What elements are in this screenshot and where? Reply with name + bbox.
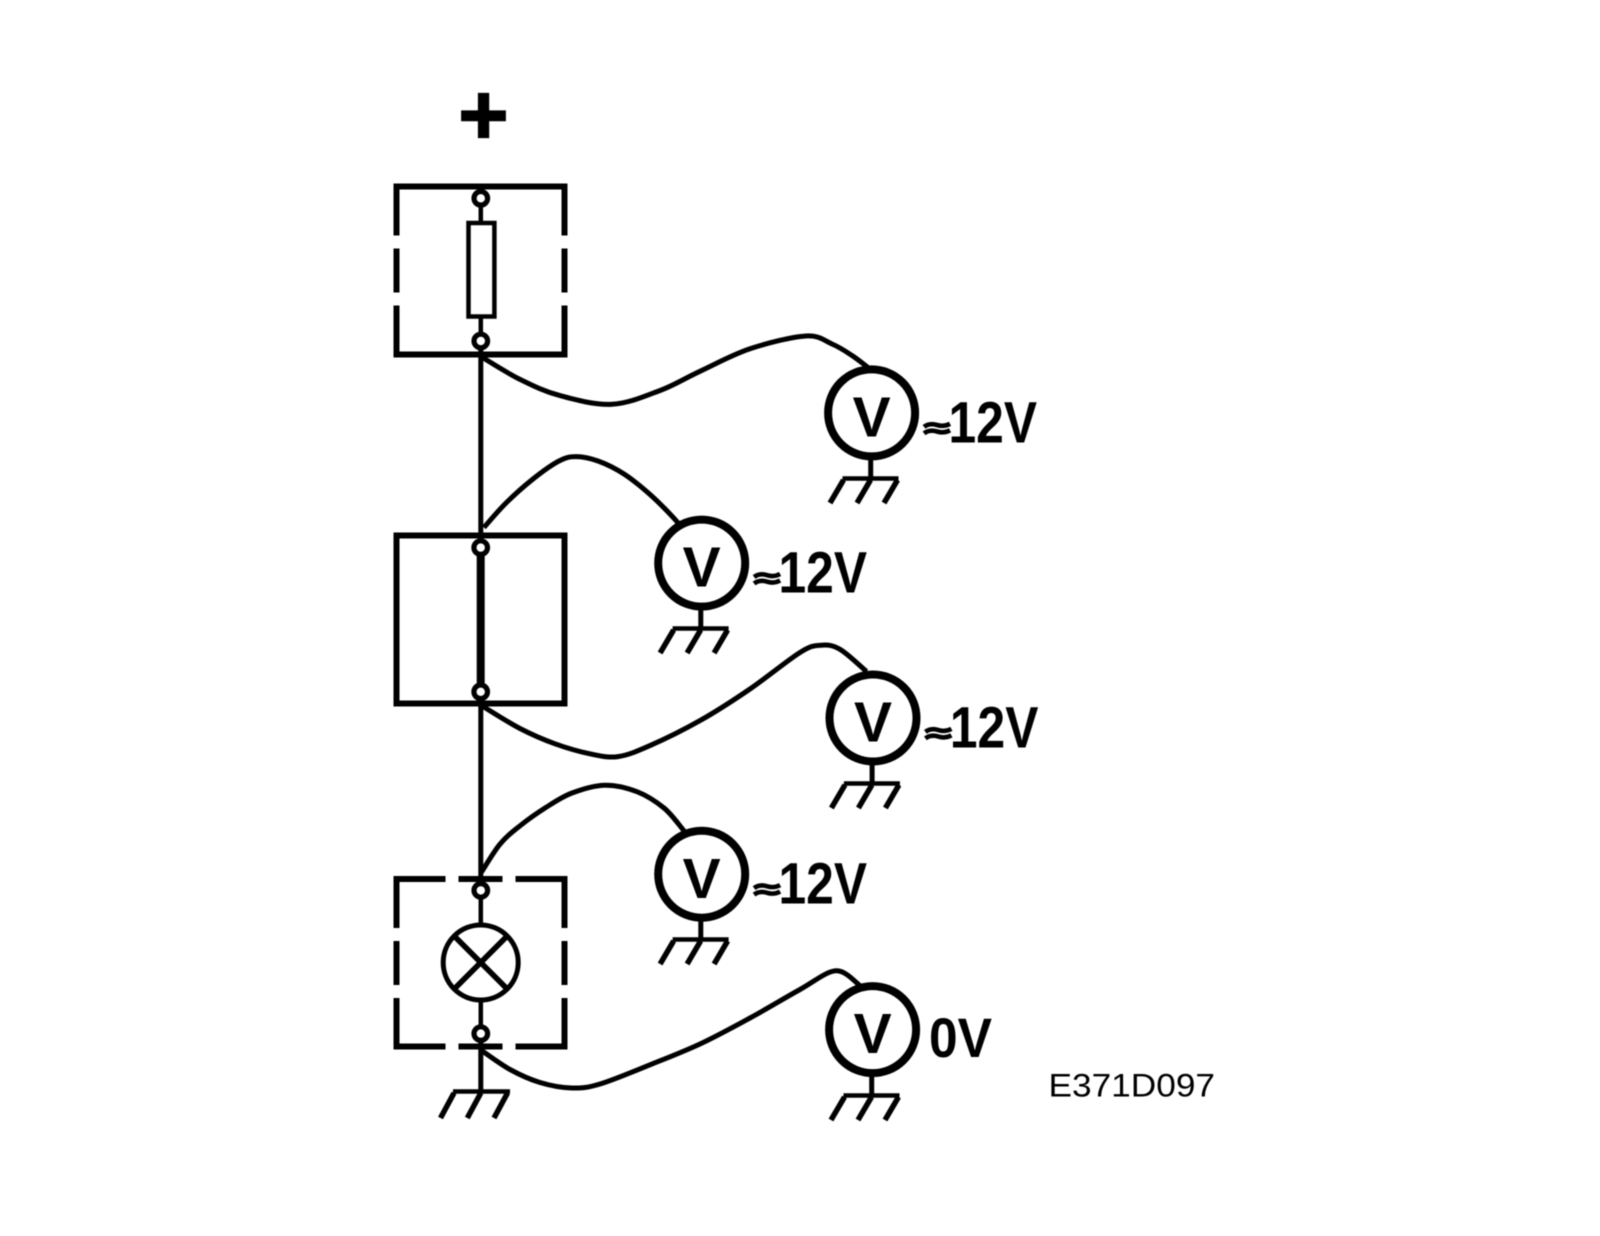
connector internal thick link bbox=[477, 550, 485, 690]
svg-text:E371D097: E371D097 bbox=[1049, 1067, 1216, 1103]
voltmeter V2 bbox=[658, 520, 745, 607]
lamp box (dashed) bbox=[394, 876, 568, 1050]
label approx 12V for V2 bbox=[754, 541, 867, 606]
wire curve 2 to voltmeter V2 bbox=[484, 457, 679, 528]
svg-text:12V: 12V bbox=[950, 695, 1039, 760]
svg-text:12V: 12V bbox=[949, 390, 1038, 455]
svg-text:12V: 12V bbox=[779, 852, 868, 917]
connector terminal top bbox=[474, 541, 488, 555]
ground for voltmeter V3 bbox=[831, 761, 900, 808]
lamp terminal bottom bbox=[474, 1027, 488, 1041]
fuse internal wires bbox=[479, 203, 484, 225]
wire main vertical from middle box to lamp box bbox=[478, 700, 483, 884]
label approx 12V for V3 bbox=[925, 695, 1038, 760]
plus supply symbol bbox=[461, 93, 506, 138]
wire curve 4 to voltmeter V4 bbox=[482, 785, 685, 872]
connector box (solid) bbox=[397, 536, 565, 704]
ground for voltmeter V1 bbox=[830, 456, 899, 503]
connector terminal bottom bbox=[474, 685, 488, 699]
svg-text:V: V bbox=[854, 691, 892, 755]
lamp terminal top bbox=[474, 884, 488, 898]
wire curve 1 to voltmeter V1 bbox=[481, 336, 869, 404]
voltmeter V3 bbox=[830, 675, 917, 762]
wire main vertical from lamp box to ground bbox=[478, 1040, 483, 1092]
wire curve 3 to voltmeter V3 bbox=[483, 645, 867, 757]
svg-text:V: V bbox=[683, 847, 721, 911]
fuse terminal top bbox=[474, 192, 488, 206]
label approx 12V for V4 bbox=[754, 852, 867, 917]
svg-text:12V: 12V bbox=[779, 541, 868, 606]
fuse terminal bottom bbox=[474, 334, 488, 348]
label approx 12V for V1 bbox=[924, 390, 1037, 455]
svg-text:V: V bbox=[683, 536, 721, 600]
wire main vertical from fuse box to middle box bbox=[478, 348, 483, 538]
ground main bbox=[441, 1092, 511, 1119]
svg-text:0V: 0V bbox=[929, 1006, 992, 1069]
svg-text:V: V bbox=[854, 1002, 892, 1066]
lamp internal wires bbox=[479, 895, 484, 930]
ground for voltmeter V5 bbox=[831, 1073, 900, 1120]
voltmeter V4 bbox=[658, 831, 745, 918]
voltmeter V5 bbox=[829, 986, 916, 1073]
wire curve 5 to voltmeter V5 bbox=[481, 971, 860, 1088]
ground for voltmeter V4 bbox=[660, 917, 729, 964]
voltmeter V1 bbox=[828, 369, 915, 456]
ground for voltmeter V2 bbox=[660, 606, 729, 653]
lamp E1 bbox=[443, 925, 518, 1000]
fuse F1 body bbox=[469, 223, 495, 317]
svg-text:V: V bbox=[853, 386, 891, 450]
fuse box (dashed sides) bbox=[394, 184, 568, 358]
